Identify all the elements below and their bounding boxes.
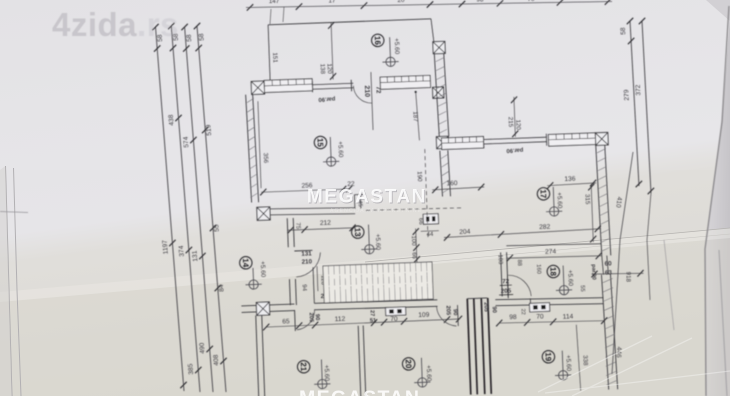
- svg-text:315: 315: [584, 194, 591, 205]
- svg-text:274: 274: [545, 248, 557, 255]
- svg-text:519: 519: [205, 124, 213, 136]
- svg-text:+5.60: +5.60: [393, 38, 401, 55]
- svg-text:204: 204: [459, 229, 471, 236]
- svg-text:+5.60: +5.60: [566, 270, 574, 287]
- svg-text:90: 90: [314, 314, 320, 321]
- svg-text:70: 70: [536, 313, 544, 320]
- svg-text:20: 20: [404, 359, 413, 369]
- svg-text:58: 58: [198, 33, 206, 41]
- svg-text:136: 136: [564, 176, 576, 183]
- svg-text:279: 279: [623, 89, 631, 101]
- svg-text:AGENCIJA ZA NEKRETNINE: AGENCIJA ZA NEKRETNINE: [330, 208, 422, 214]
- svg-text:138: 138: [319, 64, 326, 75]
- svg-text:1197: 1197: [162, 239, 170, 254]
- svg-text:+5.60: +5.60: [259, 261, 267, 278]
- svg-text:215: 215: [507, 117, 514, 128]
- svg-text:55: 55: [213, 224, 221, 232]
- svg-text:408: 408: [213, 354, 221, 366]
- svg-text:90: 90: [491, 306, 497, 313]
- svg-text:205: 205: [482, 302, 488, 313]
- svg-text:60: 60: [604, 260, 612, 267]
- svg-text:160: 160: [535, 264, 541, 274]
- svg-text:438: 438: [168, 114, 176, 126]
- svg-text:490: 490: [199, 342, 207, 354]
- svg-text:114: 114: [563, 313, 574, 320]
- svg-text:13: 13: [353, 228, 362, 238]
- svg-text:187: 187: [411, 111, 418, 122]
- svg-text:55: 55: [579, 285, 585, 292]
- svg-text:19: 19: [543, 352, 552, 362]
- svg-text:75: 75: [294, 222, 300, 230]
- svg-text:84: 84: [218, 284, 226, 292]
- svg-text:66: 66: [411, 252, 417, 260]
- svg-text:+5.60: +5.60: [323, 365, 331, 382]
- svg-text:151: 151: [271, 52, 278, 63]
- svg-text:MEGASTAN: MEGASTAN: [307, 187, 427, 208]
- svg-text:+5.60: +5.60: [336, 141, 344, 158]
- svg-text:385: 385: [187, 363, 195, 375]
- svg-text:58: 58: [186, 34, 194, 42]
- svg-text:58: 58: [157, 34, 165, 42]
- svg-text:210: 210: [363, 85, 370, 97]
- svg-text:147: 147: [269, 0, 280, 5]
- svg-text:+5.60: +5.60: [374, 234, 382, 251]
- svg-text:88: 88: [516, 259, 522, 266]
- svg-text:MEGASTAN: MEGASTAN: [299, 387, 420, 396]
- svg-text:58: 58: [172, 33, 180, 41]
- svg-text:120: 120: [514, 119, 521, 130]
- svg-text:918: 918: [624, 272, 631, 283]
- svg-text:574: 574: [183, 136, 191, 148]
- svg-text:27: 27: [369, 310, 375, 316]
- svg-text:100: 100: [410, 236, 416, 247]
- svg-text:190: 190: [416, 171, 423, 182]
- svg-text:112: 112: [335, 316, 346, 323]
- svg-text:282: 282: [539, 224, 551, 231]
- svg-text:94: 94: [301, 284, 307, 292]
- svg-text:+5.60: +5.60: [564, 355, 572, 372]
- svg-text:22: 22: [520, 309, 526, 315]
- svg-text:374: 374: [178, 245, 186, 257]
- svg-text:205: 205: [445, 305, 451, 316]
- svg-text:par.90: par.90: [318, 95, 335, 102]
- svg-text:17: 17: [539, 189, 548, 199]
- svg-text:+5.60: +5.60: [555, 192, 563, 209]
- svg-text:131: 131: [301, 250, 312, 257]
- svg-text:66: 66: [417, 218, 423, 226]
- svg-text:70: 70: [528, 0, 535, 3]
- svg-text:205: 205: [308, 312, 314, 323]
- svg-text:21: 21: [299, 362, 308, 372]
- svg-text:par.90: par.90: [506, 147, 523, 154]
- svg-text:372: 372: [635, 84, 643, 96]
- svg-text:17: 17: [329, 0, 336, 5]
- svg-text:20: 20: [398, 0, 405, 4]
- svg-text:72: 72: [502, 278, 510, 285]
- svg-text:205: 205: [501, 288, 512, 295]
- svg-text:14: 14: [241, 258, 250, 268]
- svg-text:15: 15: [315, 138, 324, 148]
- svg-text:120: 120: [326, 63, 333, 74]
- svg-text:131: 131: [191, 250, 199, 262]
- svg-text:160: 160: [446, 180, 458, 187]
- svg-text:70: 70: [390, 316, 398, 323]
- svg-text:18: 18: [548, 267, 557, 277]
- svg-text:16: 16: [373, 36, 382, 46]
- svg-text:98: 98: [477, 0, 484, 4]
- svg-text:338: 338: [581, 355, 588, 366]
- svg-text:63: 63: [605, 269, 613, 276]
- svg-text:356: 356: [262, 153, 269, 164]
- svg-text:90: 90: [452, 309, 458, 316]
- svg-text:65: 65: [282, 318, 290, 325]
- svg-text:212: 212: [320, 220, 332, 227]
- svg-text:103: 103: [497, 255, 503, 265]
- svg-text:98: 98: [509, 314, 517, 321]
- svg-text:58: 58: [620, 27, 627, 35]
- svg-text:210: 210: [302, 258, 313, 265]
- svg-text:109: 109: [418, 312, 430, 319]
